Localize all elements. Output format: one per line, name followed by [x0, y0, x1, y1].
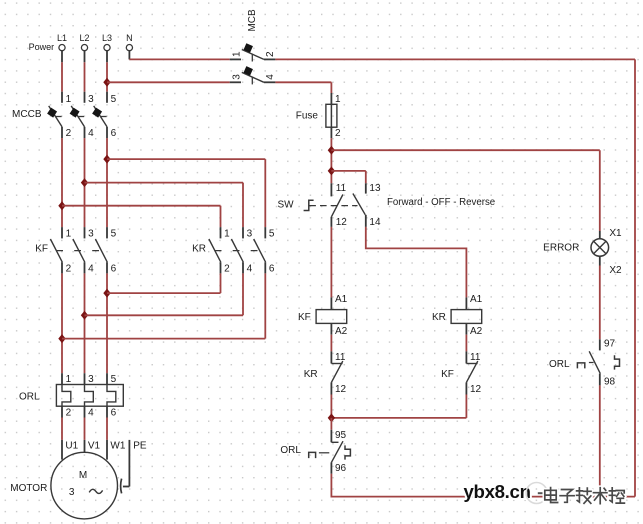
contactor KR pole 3-4	[231, 227, 252, 274]
contact ORL 95-96 heater symbol	[345, 445, 350, 459]
wire phase drop to MCCB	[61, 62, 63, 91]
svg-text:SW: SW	[277, 200, 294, 211]
svg-text:6: 6	[269, 263, 275, 274]
svg-text:ybx8.cn: ybx8.cn	[464, 481, 531, 502]
wire coil A2 to KF interlock	[465, 335, 467, 352]
wire right rail	[634, 59, 636, 496]
svg-text:3: 3	[88, 94, 94, 105]
svg-text:1: 1	[224, 229, 230, 240]
svg-text:ORL: ORL	[280, 445, 301, 456]
wire KR4 to L2 node	[242, 273, 244, 315]
svg-text:12: 12	[470, 384, 482, 395]
svg-text:Power: Power	[29, 42, 55, 52]
wire KR2 to L3 node	[220, 273, 222, 293]
contact ORL 97-98 heater symbol	[615, 355, 620, 369]
node junction L3 branch	[103, 155, 110, 164]
svg-text:2: 2	[224, 263, 230, 274]
wire MCCB out L1	[61, 138, 63, 227]
svg-text:11: 11	[470, 352, 481, 363]
node junction V crossover	[81, 311, 88, 320]
wire ORL6 to motor W1	[106, 418, 108, 440]
svg-text:ORL: ORL	[19, 392, 40, 403]
contactor KF linkage	[56, 250, 108, 252]
wire phase drop to MCCB	[106, 62, 108, 91]
motor sine symbol	[89, 489, 102, 493]
overload relay ORL body	[56, 385, 123, 407]
wire KF 12 down	[465, 395, 467, 418]
motor terminal V1	[84, 440, 86, 453]
svg-text:N: N	[126, 33, 133, 43]
contactor KR pole 1-2	[209, 227, 230, 274]
svg-text:4: 4	[247, 263, 253, 274]
svg-text:2: 2	[265, 51, 276, 57]
node junction U crossover	[103, 289, 110, 298]
svg-text:11: 11	[336, 183, 347, 194]
svg-text:97: 97	[604, 339, 616, 350]
svg-text:V1: V1	[88, 440, 101, 451]
wire fuse to SW	[330, 138, 332, 183]
wire MCCB out L2	[84, 138, 86, 227]
wire SW12 to KF coil	[330, 227, 332, 298]
contact KR NC 11-12	[331, 351, 346, 395]
svg-text:2: 2	[66, 263, 72, 274]
wire MCB2 to right rail	[275, 58, 635, 60]
svg-text:3: 3	[88, 229, 94, 240]
breaker MCCB pole 1-2	[47, 92, 71, 139]
contactor KF pole 5-6	[95, 227, 116, 274]
svg-text:12: 12	[336, 217, 348, 228]
wire KR 12 down	[330, 395, 332, 418]
wire branch L2 to KR pin3	[85, 182, 244, 184]
svg-text:Fuse: Fuse	[296, 111, 319, 122]
wire ORL98 to neutral rail	[599, 385, 601, 496]
svg-text:1: 1	[335, 94, 341, 105]
svg-text:M: M	[79, 470, 87, 481]
breaker MCB pole 3-4	[230, 66, 277, 84]
svg-text:L1: L1	[57, 33, 67, 43]
wire branch L3 to KR pin5	[107, 158, 265, 160]
contactor KR pole 5-6	[254, 227, 275, 274]
wire ORL4 to motor V1	[84, 418, 86, 440]
svg-text:6: 6	[111, 263, 117, 274]
svg-text:96: 96	[335, 463, 347, 474]
wire KF4 down	[84, 273, 86, 373]
motor M1 body	[51, 452, 118, 519]
wire coil A2 to KR interlock	[330, 335, 332, 352]
wire KR6 to L1 node	[264, 273, 266, 338]
switch SW contact 13-14	[353, 183, 381, 228]
wire MCCB out L3	[106, 138, 108, 227]
contact ORL 97-98 thermal operator	[577, 363, 584, 369]
svg-text:98: 98	[604, 376, 616, 387]
svg-text:4: 4	[88, 408, 94, 419]
contact KF NC 11-12	[466, 351, 481, 395]
node junction lamp return	[596, 492, 603, 501]
wire KF6 down	[106, 273, 108, 373]
svg-text:3: 3	[232, 74, 243, 80]
watermark chinese text	[545, 488, 625, 504]
svg-text:6: 6	[111, 128, 117, 139]
contact ORL 97-98	[589, 339, 615, 388]
svg-text:KR: KR	[192, 244, 206, 255]
node junction W crossover	[58, 334, 65, 343]
svg-text:MCB: MCB	[247, 9, 258, 32]
wire phase drop to MCCB	[84, 62, 86, 91]
svg-text:5: 5	[111, 374, 117, 385]
breaker MCCB pole 5-6	[92, 92, 116, 139]
svg-text:1: 1	[66, 229, 72, 240]
svg-text:11: 11	[335, 352, 346, 363]
svg-text:2: 2	[66, 128, 72, 139]
wire ORL2 to motor U1	[61, 418, 63, 440]
svg-text:5: 5	[111, 229, 117, 240]
svg-text:2: 2	[335, 128, 341, 139]
wire lamp to ORL 97	[599, 266, 601, 340]
wire N to MCB pole 1	[129, 58, 229, 60]
switch SW operator	[304, 200, 314, 210]
contact ORL 95-96	[331, 430, 346, 474]
svg-text:ERROR: ERROR	[543, 243, 579, 254]
wire MCB4 to fuse	[275, 81, 331, 83]
svg-text:MCCB: MCCB	[12, 109, 42, 120]
lamp ERROR	[591, 228, 622, 276]
svg-text:A1: A1	[335, 294, 348, 305]
switch SW contact 11-12	[331, 183, 347, 228]
overload ORL pole 3-4	[85, 373, 95, 418]
wire SW14 to KR coil	[366, 227, 467, 298]
svg-text:5: 5	[269, 229, 275, 240]
svg-text:A2: A2	[470, 326, 483, 337]
svg-text:A2: A2	[335, 326, 348, 337]
svg-text:14: 14	[369, 217, 381, 228]
svg-text:ORL: ORL	[549, 359, 570, 370]
svg-text:4: 4	[265, 74, 276, 80]
svg-text:KF: KF	[35, 244, 48, 255]
wire interlock join	[331, 417, 466, 419]
svg-text:A1: A1	[470, 294, 483, 305]
contact ORL 95-96 thermal operator	[309, 452, 316, 458]
svg-text:1: 1	[232, 51, 243, 57]
node junction lamp branch	[328, 146, 335, 155]
node junction L3/MCB feed	[103, 78, 110, 87]
node junction L2 branch	[81, 178, 88, 187]
svg-text:3: 3	[247, 229, 253, 240]
switch SW linkage	[309, 205, 357, 207]
svg-text:KR: KR	[304, 369, 318, 380]
svg-text:KF: KF	[441, 369, 454, 380]
contactor KF pole 1-2	[50, 227, 71, 274]
svg-text:L3: L3	[102, 33, 112, 43]
svg-text:3: 3	[69, 487, 75, 498]
svg-text:U1: U1	[65, 440, 78, 451]
motor terminal W1	[106, 440, 108, 460]
svg-text:1: 1	[66, 94, 72, 105]
svg-text:13: 13	[369, 183, 381, 194]
breaker MCB pole 1-2	[230, 43, 277, 61]
wire ORL96 to neutral rail	[331, 474, 635, 497]
svg-text:1: 1	[66, 374, 72, 385]
wire to ORL 95	[330, 418, 332, 430]
wire KF2 down	[61, 273, 63, 373]
svg-text:Forward - OFF - Reverse: Forward - OFF - Reverse	[387, 197, 495, 208]
overload ORL pole 5-6	[107, 373, 117, 418]
svg-text:95: 95	[335, 430, 347, 441]
coil KF	[316, 294, 348, 337]
svg-text:KF: KF	[298, 312, 311, 323]
wire L3 to MCB pole 3	[107, 81, 230, 83]
svg-text:2: 2	[66, 408, 72, 419]
svg-text:4: 4	[88, 128, 94, 139]
svg-text:4: 4	[88, 263, 94, 274]
motor frame earth arc	[121, 479, 122, 494]
svg-text:12: 12	[335, 384, 347, 395]
contactor KR linkage	[215, 250, 267, 252]
svg-text:MOTOR: MOTOR	[10, 483, 47, 494]
svg-text:3: 3	[88, 374, 94, 385]
motor terminal U1	[61, 440, 63, 460]
svg-text:X2: X2	[609, 265, 622, 276]
coil KR	[451, 294, 483, 337]
breaker MCCB pole 3-4	[70, 92, 94, 139]
node junction SW13 branch	[328, 166, 335, 175]
wire branch L1 to KR pin1	[62, 205, 221, 207]
node junction coils return	[328, 413, 335, 422]
fuse F1	[326, 93, 341, 139]
svg-text:6: 6	[111, 408, 117, 419]
wire to ERROR lamp	[331, 149, 599, 151]
svg-text:W1: W1	[110, 440, 125, 451]
watermark logo circle	[526, 483, 547, 504]
svg-text:X1: X1	[609, 228, 622, 239]
overload ORL pole 1-2	[62, 373, 72, 418]
node junction L1 branch	[58, 201, 65, 210]
svg-text:5: 5	[111, 94, 117, 105]
wire to SW pin13	[331, 170, 365, 172]
contactor KF pole 3-4	[73, 227, 94, 274]
svg-text:KR: KR	[432, 312, 446, 323]
svg-text:L2: L2	[79, 33, 89, 43]
svg-text:PE: PE	[133, 440, 147, 451]
